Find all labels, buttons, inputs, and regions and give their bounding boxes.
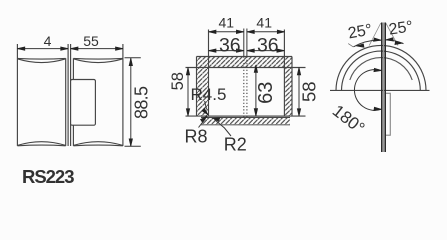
- svg-text:55: 55: [83, 33, 99, 49]
- svg-text:36: 36: [219, 35, 241, 57]
- svg-text:R2: R2: [224, 135, 247, 155]
- svg-text:36: 36: [257, 35, 279, 57]
- svg-text:41: 41: [219, 15, 235, 31]
- svg-text:88.5: 88.5: [132, 86, 152, 119]
- svg-text:4: 4: [44, 33, 52, 49]
- svg-text:R4.5: R4.5: [191, 85, 227, 104]
- svg-text:25°: 25°: [388, 18, 414, 38]
- svg-text:41: 41: [256, 15, 272, 31]
- svg-text:RS223: RS223: [22, 166, 75, 187]
- svg-text:58: 58: [299, 81, 320, 102]
- svg-text:58: 58: [169, 72, 187, 90]
- svg-text:63: 63: [255, 82, 277, 104]
- svg-text:R8: R8: [185, 126, 208, 146]
